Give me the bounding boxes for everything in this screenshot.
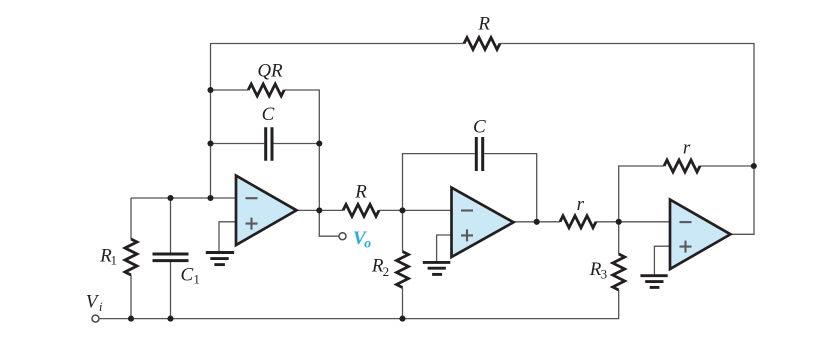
svg-text:C: C	[180, 264, 193, 285]
svg-text:R: R	[354, 182, 367, 203]
op-amp U1	[236, 176, 297, 245]
svg-text:r: r	[577, 194, 585, 215]
wire C row left	[211, 143, 265, 145]
resistor r feedback of U3	[664, 160, 700, 172]
label Vo	[353, 228, 371, 252]
wire r feedback loop of U3	[619, 166, 754, 222]
wire C row right	[274, 143, 320, 145]
wire QR row right + right vertical of QR/C loop	[284, 90, 319, 210]
svg-text:R: R	[477, 14, 490, 35]
wire C loop 2 top right + right side	[484, 154, 537, 222]
wire U2 non-inverting input to ground	[437, 235, 452, 261]
node R1 bottom	[128, 316, 134, 322]
terminal Vo	[339, 233, 346, 240]
svg-text:3: 3	[601, 267, 608, 282]
wire U2 output to r	[514, 221, 561, 223]
capacitor C integrator loop 1	[266, 127, 272, 161]
svg-text:1: 1	[193, 271, 200, 286]
node U1 inverting input	[207, 195, 213, 201]
node U1 output / Vo tap	[316, 207, 322, 213]
resistor R1	[125, 239, 137, 275]
node QR left	[207, 87, 213, 93]
wire bottom rail from Vi to R3	[100, 290, 619, 319]
op-amp U2	[452, 188, 514, 257]
svg-text:r: r	[683, 138, 691, 159]
wire Vo tap	[319, 210, 338, 236]
svg-text:V: V	[86, 292, 100, 313]
op-amp U3	[670, 200, 731, 269]
wire R to node 2 and U2 inverting input	[379, 209, 452, 211]
resistor R top feedback	[464, 38, 500, 50]
node C1 top	[167, 195, 173, 201]
node C1 bottom	[167, 316, 173, 322]
wire QR row left	[211, 89, 249, 91]
terminal Vi	[92, 315, 99, 322]
resistor R series between U1 and U2	[343, 204, 379, 216]
node C row right	[316, 140, 322, 146]
node 2 (R, C loop, R2, U2 input)	[399, 207, 405, 213]
ground below U2	[423, 262, 451, 274]
svg-text:C: C	[262, 104, 275, 125]
resistor QR	[248, 84, 284, 96]
wire R1 branch	[130, 198, 132, 319]
svg-text:2: 2	[383, 264, 390, 279]
node C row left	[207, 140, 213, 146]
svg-text:o: o	[364, 237, 371, 252]
wire C loop 2 left side + top	[403, 154, 475, 211]
resistor R3	[613, 254, 625, 290]
wire U1 output to R	[297, 209, 344, 211]
node 3 (r, r loop, R3, U3 input)	[616, 219, 622, 225]
wire U1 non-inverting input to ground	[219, 222, 236, 251]
svg-text:QR: QR	[257, 61, 283, 82]
wire U3 non-inverting input to ground	[654, 246, 670, 274]
resistor r series between U2 and U3	[560, 216, 596, 228]
wire U1 inverting input rail	[131, 197, 236, 199]
node r feedback right	[751, 163, 757, 169]
wire C1 branch	[170, 198, 172, 319]
node R2 bottom	[399, 316, 405, 322]
capacitor C1	[153, 254, 189, 261]
capacitor C integrator loop 2	[476, 137, 482, 171]
wire top rail right of R down to U3 output	[500, 44, 754, 235]
svg-text:i: i	[99, 299, 103, 314]
wire top feedback loop (left vertical + top rail left of R)	[211, 44, 465, 199]
ground below U1	[206, 253, 234, 265]
node U2 output	[534, 219, 540, 225]
wire r to node 3 and U3 inverting input	[596, 221, 670, 223]
svg-text:1: 1	[111, 253, 118, 268]
ground below U3	[640, 276, 667, 288]
wire R3 upper stub	[618, 222, 620, 254]
svg-text:C: C	[473, 116, 486, 137]
wire R2 branch	[402, 210, 404, 318]
resistor R2	[397, 252, 409, 288]
